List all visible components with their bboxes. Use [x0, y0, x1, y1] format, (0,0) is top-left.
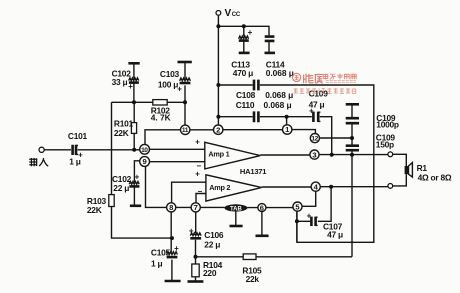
svg-text:2: 2	[216, 125, 220, 134]
svg-text:1 μ: 1 μ	[151, 258, 162, 268]
svg-text:3: 3	[312, 150, 316, 159]
svg-text:100 μ: 100 μ	[158, 80, 178, 90]
svg-text:22k: 22k	[246, 274, 260, 284]
svg-text:−: −	[197, 187, 202, 196]
svg-text:Amp 2: Amp 2	[209, 183, 230, 192]
svg-text:C101: C101	[68, 131, 88, 141]
svg-text:C103: C103	[160, 69, 180, 79]
svg-text:470 μ: 470 μ	[233, 68, 253, 78]
svg-text:C105: C105	[151, 247, 171, 257]
svg-text:22K: 22K	[114, 128, 129, 138]
svg-text:1000p: 1000p	[376, 119, 399, 129]
svg-text:R101: R101	[114, 119, 134, 129]
svg-text:+: +	[128, 82, 133, 91]
svg-text:6: 6	[260, 203, 264, 212]
svg-text:+: +	[174, 244, 179, 253]
svg-text:0.068 μ: 0.068 μ	[264, 100, 292, 110]
svg-text:V: V	[225, 8, 232, 19]
svg-text:47 μ: 47 μ	[327, 229, 343, 239]
svg-text:8: 8	[169, 203, 173, 212]
svg-text:+: +	[195, 170, 200, 179]
svg-text:12: 12	[311, 136, 318, 143]
svg-text:+: +	[248, 28, 253, 37]
svg-text:C109: C109	[309, 89, 329, 99]
svg-text:Amp 1: Amp 1	[208, 150, 229, 159]
svg-text:7: 7	[194, 203, 198, 212]
svg-text:220: 220	[203, 268, 217, 278]
svg-text:33 μ: 33 μ	[112, 77, 128, 87]
svg-text:+: +	[307, 211, 312, 220]
svg-text:+: +	[195, 138, 200, 147]
svg-text:0.068 μ: 0.068 μ	[266, 68, 294, 78]
svg-text:4. 7K: 4. 7K	[151, 113, 171, 123]
svg-text:11: 11	[182, 127, 189, 134]
svg-text:9: 9	[142, 157, 146, 166]
svg-text:+: +	[135, 173, 140, 182]
svg-text:10: 10	[141, 147, 148, 154]
svg-text:HA1371: HA1371	[240, 167, 267, 176]
svg-text:47 μ: 47 μ	[309, 100, 325, 110]
svg-text:C108: C108	[236, 90, 256, 100]
svg-text:22 μ: 22 μ	[113, 183, 129, 193]
svg-text:22K: 22K	[87, 205, 102, 215]
svg-text:22 μ: 22 μ	[204, 240, 220, 250]
svg-text:CC: CC	[232, 12, 241, 18]
svg-text:C106: C106	[204, 230, 224, 240]
svg-text:4Ω or 8Ω: 4Ω or 8Ω	[418, 172, 452, 182]
svg-text:150p: 150p	[376, 139, 394, 149]
svg-text:1 μ: 1 μ	[69, 157, 80, 167]
svg-text:0.068 μ: 0.068 μ	[265, 90, 293, 100]
svg-text:+: +	[189, 227, 194, 236]
svg-text:C110: C110	[236, 100, 255, 110]
svg-text:TAB: TAB	[230, 206, 243, 212]
